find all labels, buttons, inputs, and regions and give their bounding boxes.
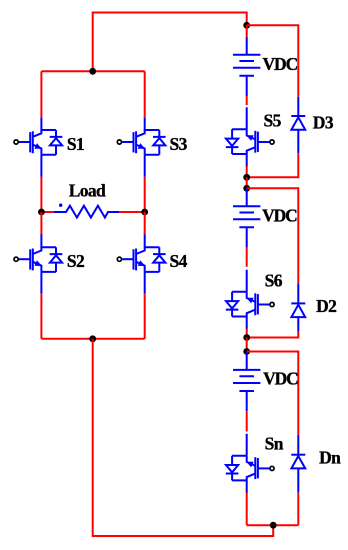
wire S1 emitter to load node [40,177,42,212]
wire bottom return to cell 3 [93,339,274,536]
wire D3 pins [297,97,299,154]
node load left junction [38,209,45,216]
wire S2 collector drop [40,212,42,235]
node cell 3 top junction [243,348,250,355]
svg-text:S4: S4 [170,251,188,271]
resistor load [54,206,120,218]
diode D2 [291,303,305,317]
wire D2 branch top [247,188,299,283]
transistor S6 [226,270,274,330]
transistor S1 [14,117,62,177]
wire S5 emitter red [246,166,248,178]
wire cell 1 mid [246,96,248,105]
node load right junction [141,209,148,216]
svg-text:S5: S5 [264,111,282,131]
svg-text:Load: Load [69,181,106,201]
battery VDC cell 3 [233,352,260,411]
wire between cell 1 and cell 2 [246,177,248,188]
wire Sn emitter red [246,493,248,526]
node cell 1 bottom junction [243,174,250,181]
node cell 2 bottom junction [243,334,250,341]
svg-text:S3: S3 [170,134,188,154]
wire cell 1 bottom rail [247,153,299,177]
transistor S4 [117,234,165,294]
svg-text:S6: S6 [265,271,283,291]
wire Dn pins [297,435,299,493]
svg-text:D2: D2 [316,296,336,316]
svg-text:S1: S1 [67,134,84,154]
diode D3 [291,116,305,130]
svg-text:VDC: VDC [263,369,298,389]
node load polarity marker [59,204,62,207]
svg-text:VDC: VDC [262,206,297,226]
wire S6 emitter red [246,328,248,337]
svg-text:Dn: Dn [319,448,341,468]
battery VDC cell 2 [233,189,260,248]
transistor S2 [14,234,62,294]
node cell 2 top junction [243,185,250,192]
wire cell 2 mid [246,248,248,267]
wire D2 pins [297,283,299,331]
wire S4 collector drop [144,212,146,235]
wire S3 emitter to load node [144,177,146,212]
svg-text:S2: S2 [67,251,84,271]
wire D3 branch top [247,25,299,96]
transistor S3 [117,117,165,177]
wire cell 3 mid [246,412,248,432]
wire H-bridge bottom rail [41,338,144,340]
wire top riser from H-bridge rail to top rail and down to cell 1 [93,13,247,72]
wire S3 collector drop [144,71,146,117]
node junction top rail [89,68,96,75]
transistor S5 [226,107,274,167]
wire Dn branch top [247,352,299,435]
wire cell 1 chain stub [246,25,248,37]
wire S1 collector drop [40,71,42,117]
node junction bottom rail [89,335,96,342]
wire H-bridge top rail [41,70,144,72]
wire cell 3 bottom rail [247,493,299,526]
node cell 3 bottom junction [270,522,277,529]
battery VDC cell 1 [233,37,260,96]
diode Dn [291,455,305,469]
wire cell 2 bottom rail [247,332,299,338]
wire S2 emitter to bottom rail [40,294,42,339]
svg-text:Sn: Sn [265,434,284,454]
wire between cell 2 and cell 3 [246,338,248,352]
svg-text:VDC: VDC [263,54,298,74]
wire load left stub [41,211,53,213]
transistor Sn [226,434,274,494]
wire S4 emitter to bottom rail [144,294,146,339]
svg-text:D3: D3 [313,113,334,133]
wire load right stub [119,211,144,213]
node junction cell 1 top [243,22,250,29]
